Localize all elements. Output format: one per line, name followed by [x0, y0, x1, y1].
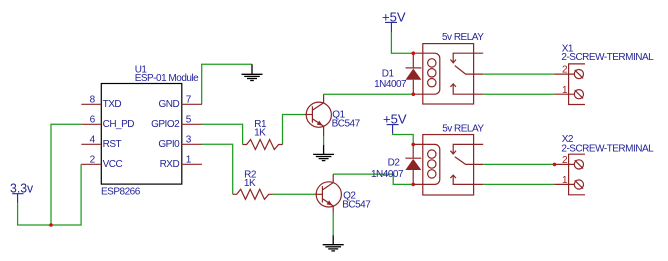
svg-text:GPIO2: GPIO2 — [151, 119, 180, 130]
svg-text:1N4007: 1N4007 — [371, 169, 404, 180]
svg-text:2: 2 — [562, 65, 568, 76]
svg-text:2-SCREW-TERMINAL: 2-SCREW-TERMINAL — [561, 52, 654, 63]
svg-text:4: 4 — [90, 135, 96, 146]
svg-text:2: 2 — [90, 155, 96, 166]
svg-text:GPI0: GPI0 — [158, 139, 180, 150]
svg-text:2-SCREW-TERMINAL: 2-SCREW-TERMINAL — [561, 144, 654, 155]
svg-text:5: 5 — [186, 115, 192, 126]
svg-text:5v RELAY: 5v RELAY — [442, 32, 484, 43]
svg-text:7: 7 — [186, 95, 192, 106]
svg-text:8: 8 — [90, 95, 96, 106]
svg-text:ESP8266: ESP8266 — [101, 187, 141, 198]
svg-text:RXD: RXD — [160, 159, 180, 170]
svg-text:CH_PD: CH_PD — [103, 119, 135, 130]
svg-text:+5V: +5V — [383, 112, 407, 127]
svg-text:ESP-01 Module: ESP-01 Module — [135, 73, 199, 84]
svg-text:RST: RST — [103, 139, 122, 150]
svg-text:TXD: TXD — [103, 99, 122, 110]
svg-text:1: 1 — [186, 155, 192, 166]
svg-text:1K: 1K — [244, 178, 256, 189]
svg-text:D2: D2 — [388, 158, 401, 169]
svg-text:1N4007: 1N4007 — [374, 79, 407, 90]
svg-text:3: 3 — [186, 135, 192, 146]
svg-text:VCC: VCC — [103, 159, 123, 170]
svg-text:2: 2 — [562, 155, 568, 166]
svg-text:1: 1 — [562, 85, 568, 96]
svg-text:BC547: BC547 — [342, 200, 371, 211]
svg-text:3.3v: 3.3v — [10, 180, 34, 195]
svg-text:6: 6 — [90, 115, 96, 126]
svg-text:1: 1 — [562, 175, 568, 186]
svg-text:+5V: +5V — [382, 9, 406, 24]
svg-text:1K: 1K — [254, 128, 266, 139]
svg-text:5v RELAY: 5v RELAY — [442, 124, 484, 135]
svg-text:BC547: BC547 — [332, 119, 361, 130]
svg-text:D1: D1 — [382, 69, 395, 80]
svg-text:GND: GND — [158, 99, 179, 110]
